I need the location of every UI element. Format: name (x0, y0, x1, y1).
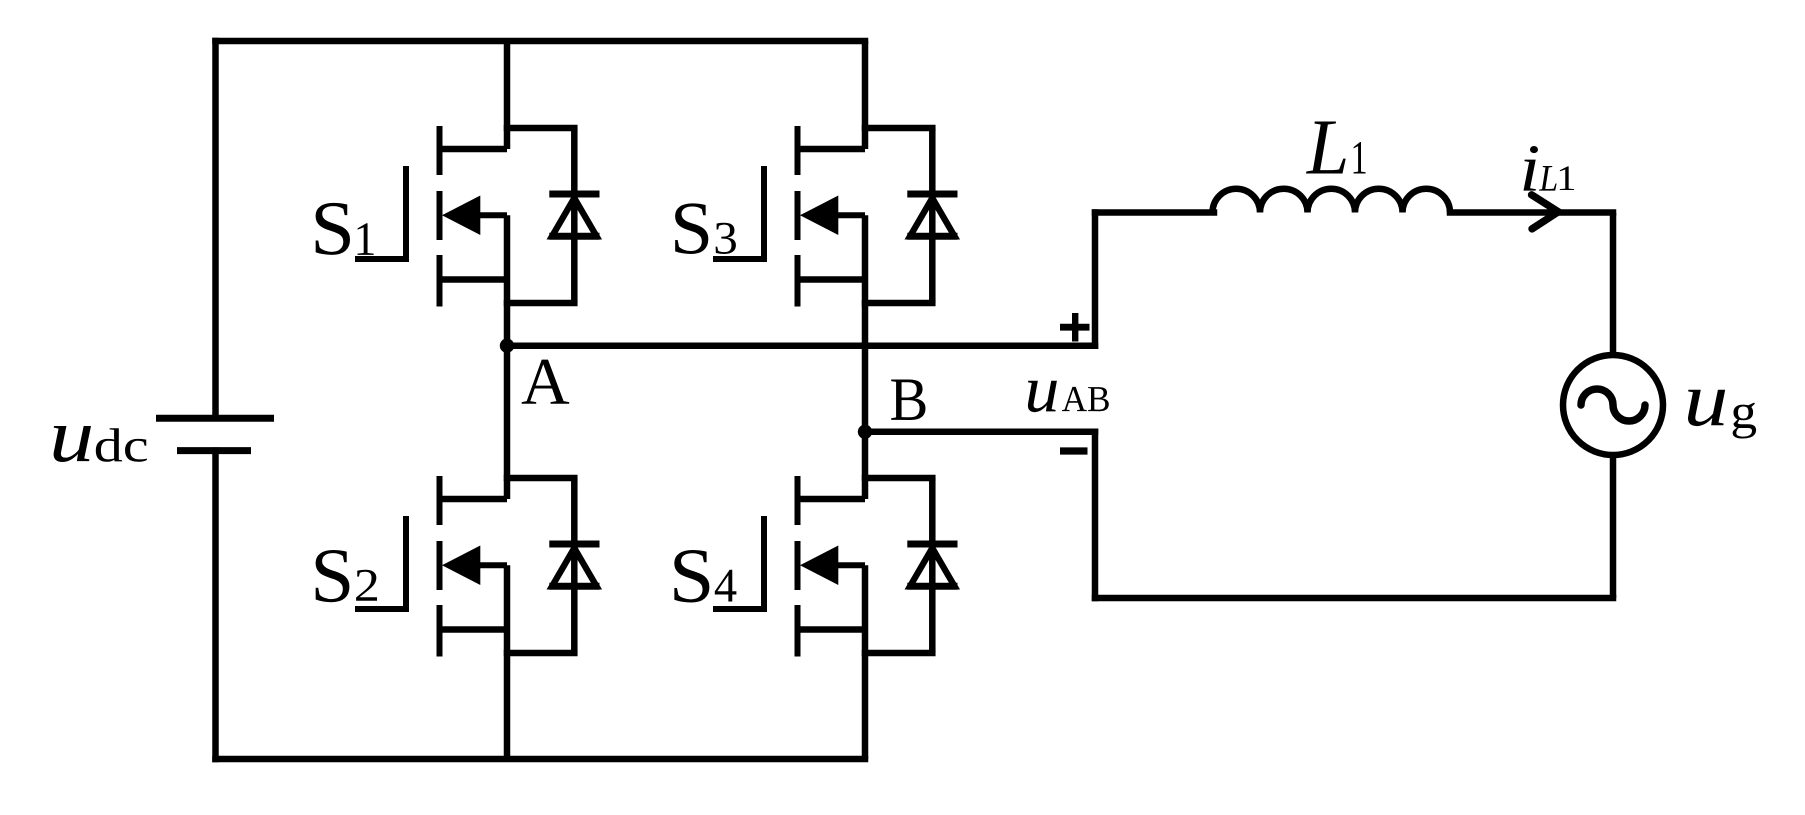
transistor S3 (MOSFET) (716, 126, 865, 307)
wire: node A to + terminal (507, 342, 1095, 349)
wire: S1 drain lead (504, 41, 511, 149)
label A (522, 360, 569, 404)
wire: left rail lower (battery - to bottom bus) (212, 451, 219, 759)
node A junction dot (500, 339, 514, 353)
wire: S2 drain lead from node A (504, 346, 511, 499)
node B junction dot (858, 425, 872, 439)
label u_g (1688, 390, 1756, 439)
wire: top of output loop (left of L1) (1095, 209, 1214, 216)
label i_L1 (1523, 146, 1574, 191)
wire: S4 drain lead from node B (862, 432, 869, 499)
wire: bottom of output loop (1095, 595, 1613, 602)
wire: top of output loop (right of L1) (1450, 209, 1613, 216)
diode: body diode of S3 (865, 128, 958, 303)
battery u_dc negative plate (177, 447, 251, 454)
label S2 (316, 550, 377, 602)
wire: top rail (DC+ bus) (216, 38, 866, 45)
battery u_dc positive plate (156, 415, 274, 422)
wire: right riser upper (to grid source) (1610, 213, 1617, 358)
wire: + terminal riser (1092, 213, 1099, 346)
label S1 (316, 203, 374, 255)
label u_dc (54, 426, 147, 462)
AC source sine wave (1581, 389, 1645, 421)
AC source u_g circle (1563, 355, 1663, 455)
wire: node B to - terminal (865, 429, 1095, 436)
diode: body diode of S4 (865, 478, 958, 653)
inductor L1 (1213, 189, 1451, 213)
label B (891, 379, 925, 420)
wire: S2 source lead to bottom rail (504, 565, 511, 759)
label S4 (674, 550, 736, 602)
wire: S3 source lead to node B (862, 215, 869, 432)
transistor S1 (MOSFET) (358, 126, 507, 307)
wire: S1 source lead to node A (504, 215, 511, 346)
diode: body diode of S1 (507, 128, 600, 303)
wire: right riser lower (1610, 453, 1617, 598)
label L1 (1306, 121, 1366, 173)
transistor S4 (MOSFET) (716, 476, 865, 657)
plus sign (+ terminal of u_AB) (1060, 313, 1090, 342)
transistor S2 (MOSFET) (358, 476, 507, 657)
label u_AB (1028, 381, 1109, 412)
minus sign (- terminal of u_AB) (1060, 447, 1088, 454)
wire: - terminal riser (1092, 432, 1099, 598)
label S3 (675, 203, 736, 254)
wire: S4 source lead to bottom rail (862, 565, 869, 759)
diode: body diode of S2 (507, 478, 600, 653)
wire: S3 drain lead (862, 41, 869, 149)
wire: bottom rail (DC- bus) (216, 756, 866, 763)
wire: left rail upper (battery + to top bus) (212, 41, 219, 418)
arrowhead: current direction i_L1 (1532, 195, 1559, 229)
